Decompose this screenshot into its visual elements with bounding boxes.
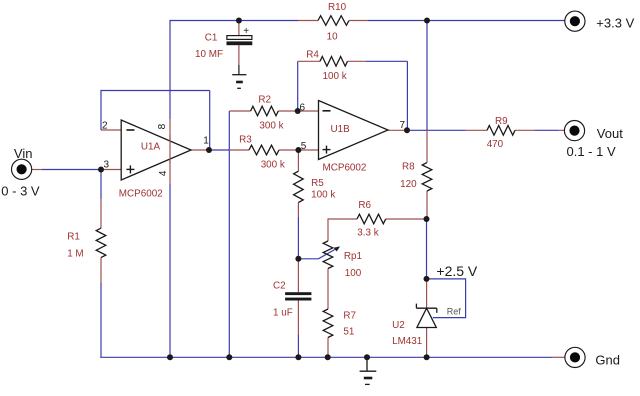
wire Rp1 top corner to R6	[328, 218, 357, 220]
wire R2 left lead	[229, 110, 250, 112]
svg-text:7: 7	[400, 120, 406, 131]
wire U1B pin 7 output lead	[388, 129, 407, 131]
wire R2 right lead to node 6	[278, 110, 297, 112]
svg-text:R9: R9	[495, 116, 508, 127]
shunt regulator U2 LM431	[416, 304, 436, 328]
wire Vin to node 3	[42, 169, 101, 171]
svg-text:6: 6	[300, 103, 306, 114]
wire R9 right lead	[515, 129, 535, 131]
svg-text:R2: R2	[258, 95, 271, 106]
svg-text:R4: R4	[306, 50, 319, 61]
terminal Gnd	[565, 347, 585, 367]
junction node 7 output	[404, 127, 410, 133]
wire pin 1 node to R3	[209, 149, 229, 151]
svg-text:0.1 - 1 V: 0.1 - 1 V	[567, 144, 616, 159]
svg-text:100 k: 100 k	[311, 190, 335, 201]
terminal Vin	[12, 159, 32, 179]
svg-text:5: 5	[301, 141, 307, 152]
wire U2 anode lead to ground rail	[426, 328, 428, 358]
svg-text:U1B: U1B	[331, 124, 351, 135]
terminal Vout	[564, 121, 584, 141]
wire top +3.3V rail left segment	[170, 20, 298, 22]
svg-text:Rp1: Rp1	[344, 251, 363, 262]
svg-text:LM431: LM431	[392, 336, 423, 347]
junction node R6/R8	[424, 216, 430, 222]
svg-text:R8: R8	[402, 162, 415, 173]
svg-text:R10: R10	[328, 2, 347, 13]
wire Vout terminal stub	[559, 129, 565, 131]
svg-text:U2: U2	[392, 320, 405, 331]
U1A power line through body	[169, 135, 171, 163]
svg-text:300 k: 300 k	[261, 159, 285, 170]
junction node +3.3V rail/R8 branch	[424, 18, 430, 24]
wire node 3 to U1A pin 3	[101, 169, 121, 171]
wire top +3.3V rail right segment	[367, 20, 565, 22]
wire R1 bottom lead	[100, 258, 102, 283]
svg-text:3: 3	[104, 160, 110, 171]
svg-text:+3.3 V: +3.3 V	[596, 16, 634, 31]
wire R7 bottom lead	[327, 338, 329, 358]
svg-text:1 M: 1 M	[67, 248, 83, 259]
wire ground rail stub at Gnd terminal	[553, 356, 565, 358]
junction ground rail node at supply branch	[167, 354, 173, 360]
wire U1A feedback right vertical to pin 1	[209, 91, 211, 151]
svg-text:3.3 k: 3.3 k	[357, 228, 378, 239]
junction ground rail node at U2	[424, 354, 430, 360]
junction node C1/+3.3V rail	[236, 18, 242, 24]
svg-text:R1: R1	[67, 231, 80, 242]
svg-text:U1A: U1A	[141, 142, 161, 153]
resistor R2	[251, 106, 279, 116]
resistor R9	[487, 126, 515, 136]
junction node 5	[295, 147, 301, 153]
wire node 5 down to R5	[297, 150, 299, 171]
wire node 5 to U1B pin 5	[298, 149, 318, 151]
resistor R5	[294, 171, 304, 202]
wire R10 left lead	[298, 20, 318, 22]
wire bottom ground rail	[100, 356, 552, 358]
potentiometer Rp1	[323, 241, 333, 269]
svg-text:Ref: Ref	[447, 307, 462, 317]
capacitor C1	[227, 26, 253, 45]
junction ground rail node at ground symbol	[364, 354, 370, 360]
wiper arrowhead	[334, 246, 340, 251]
wire Rp1 wiper diagonal	[318, 248, 336, 258]
svg-text:R6: R6	[358, 200, 371, 211]
wire U1A feedback left vertical	[100, 91, 102, 131]
svg-text:R5: R5	[311, 178, 324, 189]
wire R4 left lead	[298, 60, 320, 62]
wire C1 lead to ground symbol	[238, 65, 240, 75]
junction node 6	[295, 108, 301, 114]
wire R3 right lead to node 5	[279, 149, 298, 151]
junction node wiper/C2	[295, 256, 301, 262]
wire Rp1 top lead	[327, 218, 329, 241]
wire C1 bottom lead	[238, 45, 240, 65]
svg-text:51: 51	[343, 326, 354, 337]
wire Vin terminal stub	[32, 169, 42, 171]
svg-text:1: 1	[203, 136, 209, 147]
svg-text:C2: C2	[273, 280, 286, 291]
svg-text:100: 100	[345, 268, 362, 279]
junction node pin1 output	[206, 147, 212, 153]
wire node 6 up to R4	[297, 61, 299, 111]
wire R9 left lead	[466, 129, 488, 131]
svg-text:1 uF: 1 uF	[273, 308, 293, 319]
wire C2 bottom lead	[297, 301, 299, 336]
terminal +3.3V	[565, 11, 585, 31]
wire U1A pin 2 lead	[101, 129, 121, 131]
wire R4 feedback vertical to pin 7	[406, 61, 408, 130]
svg-text:Gnd: Gnd	[595, 353, 620, 368]
resistor R1	[96, 228, 106, 258]
svg-text:R3: R3	[239, 134, 252, 145]
wire R8 bottom lead to node	[426, 191, 428, 219]
wire R3 left lead	[229, 149, 249, 151]
wire wiper node to C2	[297, 259, 299, 292]
wire supply vertical below U1A to ground rail	[169, 184, 171, 357]
op-amp U1B	[319, 101, 389, 160]
wire R2 left to ground rail vertical	[228, 111, 230, 357]
wire R1 top lead	[100, 199, 102, 228]
junction node +2.5V	[424, 276, 430, 282]
wire R4 to pin 7 horizontal	[366, 60, 407, 62]
wire U1A pin 1 output lead	[191, 149, 209, 151]
ground under C1	[232, 75, 246, 89]
resistor R10	[318, 16, 349, 26]
resistor R7	[323, 309, 333, 338]
wire U1A feedback top horizontal	[100, 90, 209, 92]
wire R8 top lead	[426, 130, 428, 162]
svg-text:C1: C1	[205, 33, 218, 44]
svg-text:+2.5 V: +2.5 V	[436, 263, 478, 279]
svg-text:10: 10	[327, 31, 338, 42]
resistor R4	[320, 57, 348, 67]
svg-text:Vout: Vout	[597, 126, 623, 141]
wire node 6 to U1B pin 6	[298, 110, 319, 112]
wire Ref loop from +2.5V node	[427, 279, 466, 318]
svg-text:8: 8	[157, 123, 168, 129]
svg-text:2: 2	[102, 121, 108, 132]
junction ground rail node at R7	[325, 354, 331, 360]
svg-text:120: 120	[400, 179, 417, 190]
wire R9 to Vout terminal	[535, 129, 560, 131]
wire C1 top lead	[238, 21, 240, 36]
wire U2 cathode lead	[426, 279, 428, 308]
junction ground rail node at R2 branch	[226, 354, 232, 360]
wire supply vertical to U1A pins 8/4 (upper)	[169, 20, 171, 119]
resistor R6	[357, 214, 386, 224]
wire R5 bottom lead	[297, 203, 299, 218]
svg-text:4: 4	[158, 170, 169, 176]
svg-text:300 k: 300 k	[259, 120, 283, 131]
wire Rp1 to R7 lead	[327, 269, 329, 310]
svg-text:R7: R7	[343, 310, 356, 321]
wire R4 right lead	[348, 60, 367, 62]
junction node 3 Vin/R1	[98, 167, 104, 173]
svg-text:Vin: Vin	[14, 146, 33, 161]
svg-text:MCP6002: MCP6002	[323, 163, 367, 174]
wire node 3 down to R1	[100, 170, 102, 200]
wire R8 node down to +2.5V node	[426, 219, 428, 279]
wire pin 7 node to R9	[407, 129, 466, 131]
svg-text:470: 470	[487, 139, 504, 150]
wire R10 right lead	[349, 20, 367, 22]
wire R1 to ground rail	[100, 283, 102, 358]
op-amp U1A	[121, 120, 191, 180]
resistor R8	[422, 163, 432, 191]
svg-text:0 - 3 V: 0 - 3 V	[1, 184, 40, 199]
ground symbol bottom center	[360, 357, 377, 384]
wire R6 right lead to R8 node	[386, 218, 427, 220]
wire C2 to ground rail	[297, 335, 299, 358]
capacitor C2	[285, 292, 311, 300]
wire U1A power pins 8-4 vertical (red)	[169, 119, 171, 184]
svg-text:10 MF: 10 MF	[195, 49, 223, 60]
svg-text:MCP6002: MCP6002	[119, 189, 163, 200]
wire Rp1 wiper horizontal	[298, 258, 318, 260]
junction ground rail node at C2	[295, 354, 301, 360]
svg-text:100 k: 100 k	[323, 71, 347, 82]
resistor R3	[249, 145, 279, 155]
svg-text:+: +	[243, 26, 249, 37]
wire +3.3V rail down to R8	[426, 21, 428, 131]
wire R5 to wiper node	[297, 217, 299, 259]
